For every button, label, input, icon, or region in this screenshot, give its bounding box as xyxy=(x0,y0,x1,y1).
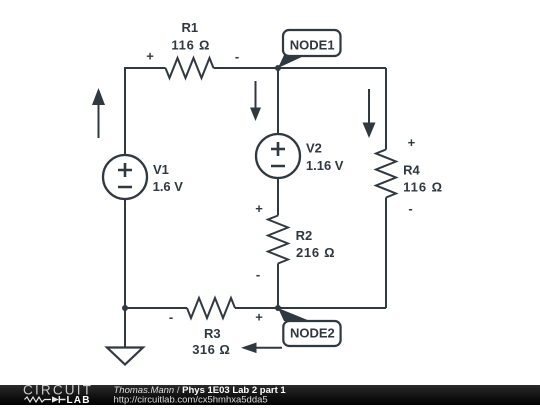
svg-text:-: - xyxy=(169,309,173,324)
svg-text:-: - xyxy=(256,267,260,282)
R1 minus polarity label xyxy=(235,49,239,64)
svg-text:R2: R2 xyxy=(296,228,313,243)
current arrow down (middle branch) xyxy=(250,81,261,121)
svg-text:+: + xyxy=(255,310,263,325)
wire left vertical upper xyxy=(124,67,126,155)
wire top-right horizontal xyxy=(214,67,387,69)
svg-text:http://circuitlab.com/cx5hmhxa: http://circuitlab.com/cx5hmhxa5dda5 xyxy=(114,394,268,405)
wire right vertical lower xyxy=(385,198,387,309)
svg-text:+: + xyxy=(146,49,154,64)
svg-text:NODE2: NODE2 xyxy=(290,325,335,340)
node NODE2 label xyxy=(278,308,341,346)
node NODE1 label xyxy=(278,30,341,68)
wire top-left horizontal xyxy=(125,67,166,69)
voltage source V2 xyxy=(256,134,344,178)
svg-text:1.16 V: 1.16 V xyxy=(306,158,344,173)
wire bottom-left horizontal xyxy=(125,307,187,309)
svg-text:1.6 V: 1.6 V xyxy=(153,179,184,194)
current arrow up (left branch) xyxy=(92,88,105,138)
junction dot left bottom xyxy=(122,305,128,311)
footer CircuitLab logo xyxy=(23,382,93,406)
footer title text xyxy=(114,385,287,406)
ground xyxy=(107,348,143,365)
svg-text:116 Ω: 116 Ω xyxy=(403,180,442,195)
junction dot NODE1 xyxy=(275,65,281,71)
current arrow down (right branch) xyxy=(363,89,376,138)
wire bottom-right horizontal xyxy=(235,307,386,309)
resistor R2 xyxy=(268,216,335,264)
R4 plus polarity label xyxy=(408,135,416,150)
svg-text:+: + xyxy=(255,201,263,216)
R2 plus polarity label xyxy=(255,201,263,216)
current arrow left (bottom branch) xyxy=(241,343,282,354)
wire middle vertical mid xyxy=(277,178,279,216)
resistor R3 xyxy=(187,298,235,357)
voltage source V1 xyxy=(103,155,183,199)
svg-text:116 Ω: 116 Ω xyxy=(171,37,209,52)
resistor R4 xyxy=(376,150,442,198)
resistor R1 xyxy=(166,20,214,78)
R3 minus polarity label xyxy=(169,309,173,324)
svg-text:316 Ω: 316 Ω xyxy=(192,342,230,357)
svg-text:R1: R1 xyxy=(181,20,198,35)
svg-text:+: + xyxy=(408,135,416,150)
R3 plus polarity label xyxy=(255,310,263,325)
svg-text:LAB: LAB xyxy=(67,395,91,405)
svg-text:216 Ω: 216 Ω xyxy=(296,245,335,260)
junction dot NODE2 xyxy=(275,305,281,311)
svg-text:R3: R3 xyxy=(204,326,221,341)
svg-text:-: - xyxy=(235,49,239,64)
footer bar xyxy=(0,385,540,405)
svg-text:-: - xyxy=(408,201,412,216)
R1 plus polarity label xyxy=(146,49,154,64)
R4 minus polarity label xyxy=(408,201,412,216)
wire middle vertical lower xyxy=(277,264,279,309)
svg-text:V2: V2 xyxy=(306,140,322,155)
wire middle vertical upper xyxy=(277,68,279,135)
svg-text:R4: R4 xyxy=(403,163,420,178)
wire left vertical lower xyxy=(124,199,126,308)
wire ground stem xyxy=(124,308,126,348)
svg-text:V1: V1 xyxy=(153,162,169,177)
wire right vertical upper xyxy=(385,68,387,150)
R2 minus polarity label xyxy=(256,267,260,282)
svg-text:NODE1: NODE1 xyxy=(290,37,335,52)
